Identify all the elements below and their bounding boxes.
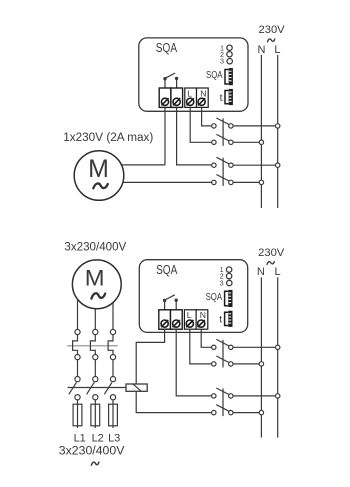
- screw terminal L: [186, 320, 193, 327]
- svg-text:L3: L3: [108, 432, 120, 444]
- connector t header: [229, 89, 233, 105]
- screw terminal L: [187, 98, 194, 105]
- connector SQA socket: [225, 291, 228, 306]
- contact node U2: [75, 355, 80, 360]
- internal relay contact (dots and blade): [163, 77, 166, 80]
- svg-text:L: L: [275, 266, 281, 278]
- controller box SQA (3~ version): [139, 260, 247, 333]
- wire terminal N to switch row1: [201, 329, 211, 347]
- controller box SQA (1~ version): [139, 38, 248, 111]
- svg-text:3: 3: [220, 279, 224, 288]
- svg-text:N: N: [258, 44, 266, 56]
- svg-text:SQA: SQA: [156, 42, 178, 55]
- contactor pole 2: [90, 335, 95, 355]
- connector SQA socket: [225, 70, 228, 85]
- switch Q1 linkage to trip coil: [68, 387, 126, 389]
- switch Q1 blade 2: [87, 382, 95, 394]
- pin 1 terminal: [227, 45, 232, 50]
- svg-text:SQA: SQA: [156, 264, 178, 277]
- screw terminal 2: [173, 98, 180, 105]
- wire terminal2 to switch row3: [176, 329, 211, 396]
- wire pole1 down: [77, 360, 79, 377]
- pin 3 terminal: [227, 59, 232, 64]
- wire terminal2 down: [177, 107, 212, 164]
- terminal block L-N: [184, 310, 196, 329]
- screw terminal N: [198, 98, 205, 105]
- svg-text:N: N: [200, 88, 206, 98]
- wire motor phase U: [77, 299, 79, 329]
- wire terminal L down: [190, 107, 212, 142]
- switch Q1 blade 3: [104, 382, 112, 394]
- svg-text:t: t: [219, 315, 222, 326]
- linkage rows3-4: [222, 388, 224, 416]
- linkage rows1-2: [222, 118, 224, 145]
- fuse F1: [73, 400, 82, 428]
- contactor pole 3: [108, 335, 113, 355]
- svg-text:L: L: [274, 44, 280, 56]
- switch row4: [212, 405, 260, 415]
- junction row2-N: [259, 140, 263, 144]
- pin 2 terminal: [227, 52, 232, 57]
- supply line N: [260, 277, 262, 437]
- wire terminal L to switch row2: [190, 329, 212, 364]
- label ~: [267, 262, 274, 265]
- terminal block 1-2 (motor): [159, 88, 171, 107]
- svg-text:L: L: [187, 88, 192, 98]
- connector t socket: [225, 312, 228, 325]
- connector SQA header: [229, 68, 233, 85]
- svg-text:L2: L2: [92, 432, 104, 444]
- junction row1-L: [276, 124, 280, 128]
- wire pole2 down: [94, 360, 96, 377]
- svg-text:3x230/400V: 3x230/400V: [64, 240, 126, 253]
- switch row2 (L to N supply): [212, 134, 260, 144]
- svg-text:t: t: [220, 93, 223, 104]
- junction row2-N: [259, 362, 263, 366]
- svg-text:230V: 230V: [259, 24, 286, 36]
- contact node W2: [110, 355, 115, 360]
- motor M 3~: [72, 260, 121, 309]
- supply line L: [277, 277, 279, 437]
- svg-text:N: N: [257, 266, 265, 278]
- connector t socket: [225, 91, 228, 104]
- contactor K1 linkage bar: [67, 345, 117, 347]
- fuse F3: [109, 400, 118, 428]
- switch row1 (N to L supply): [212, 118, 276, 128]
- label ~: [268, 39, 275, 42]
- pin 3 terminal: [227, 280, 232, 285]
- linkage rows1-2: [222, 340, 224, 368]
- screw terminal 2: [173, 320, 180, 327]
- switch Q1 blade 1: [69, 382, 77, 394]
- wire motor bottom lead to switch row4: [123, 181, 212, 183]
- BOTTOM DIAGRAM: [59, 240, 285, 465]
- switch row2: [212, 356, 260, 366]
- TOP DIAGRAM: [63, 24, 285, 208]
- linkage rows3-4: [222, 158, 224, 186]
- svg-text:3: 3: [220, 57, 224, 66]
- screw terminal N: [198, 320, 205, 327]
- svg-text:M: M: [88, 155, 109, 183]
- screw terminal 1: [161, 320, 168, 327]
- contact node V1: [93, 329, 98, 334]
- svg-text:1x230V (2A max): 1x230V (2A max): [63, 131, 153, 144]
- wire terminal1 to trip coil: [136, 329, 164, 384]
- pin 1 terminal: [226, 267, 231, 272]
- wire terminal N down: [202, 107, 212, 126]
- wire coil to switch row4: [136, 391, 211, 412]
- internal relay contact (dots and blade): [163, 299, 166, 302]
- disconnect switch Q1 upper contacts: [75, 377, 80, 382]
- junction row4-N: [259, 410, 263, 414]
- svg-text:L1: L1: [74, 432, 86, 444]
- switch Q1 lower contacts: [75, 395, 80, 400]
- contact node U1: [75, 329, 80, 334]
- connector t header: [228, 311, 232, 327]
- fuse F2: [91, 400, 100, 428]
- supply line N: [260, 55, 262, 208]
- svg-text:SQA: SQA: [206, 69, 223, 80]
- svg-text:230V: 230V: [258, 247, 285, 259]
- wire motor phase V: [94, 309, 96, 330]
- wire motor phase W: [112, 303, 114, 330]
- terminal block L-N: [185, 88, 197, 107]
- switch row1: [212, 339, 276, 349]
- switch row3: [212, 157, 276, 167]
- switch row3: [212, 388, 276, 398]
- wire motor top lead: [122, 164, 165, 166]
- trip coil box: [126, 384, 147, 391]
- contactor pole 1: [73, 335, 78, 355]
- wire terminal1 to motor line: [164, 107, 166, 164]
- terminal block 1-2: [159, 310, 171, 329]
- svg-text:L: L: [187, 310, 192, 320]
- contact node W1: [110, 329, 115, 334]
- screw terminal 1: [161, 98, 168, 105]
- junction row3-L: [276, 163, 280, 167]
- junction row1-L: [276, 345, 280, 349]
- svg-text:SQA: SQA: [206, 291, 223, 302]
- supply line L: [277, 55, 279, 208]
- motor M 1~: [74, 151, 124, 201]
- svg-text:N: N: [200, 310, 206, 320]
- svg-text:M: M: [85, 265, 105, 290]
- wire pole3 down: [112, 360, 114, 377]
- label ~ supply: [91, 462, 99, 465]
- contact node V2: [93, 355, 98, 360]
- connector SQA header: [228, 290, 232, 307]
- junction row4-N: [259, 180, 263, 184]
- pin 2 terminal: [226, 273, 231, 278]
- svg-text:3x230/400V: 3x230/400V: [59, 444, 125, 458]
- switch row4: [212, 175, 260, 185]
- junction row3-L: [276, 394, 280, 398]
